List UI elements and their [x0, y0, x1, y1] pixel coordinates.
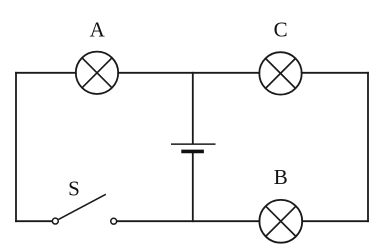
svg-text:B: B [274, 165, 288, 189]
switch S: left terminal [52, 218, 58, 224]
wire top-left horizontal [16, 72, 76, 74]
battery: short thick plate (-) [181, 150, 204, 154]
lamp A [76, 52, 118, 94]
svg-text:A: A [90, 18, 106, 42]
svg-text:S: S [68, 177, 80, 201]
wire bottom-left horizontal [16, 220, 52, 222]
battery: long thin plate (+) [171, 143, 216, 145]
wire middle branch upper (top node to battery) [192, 73, 194, 144]
wire bottom-right horizontal [302, 220, 368, 222]
wire left vertical [15, 73, 17, 221]
wire middle branch lower (battery to bottom node) [192, 154, 194, 222]
lamp C [259, 52, 301, 94]
switch S: blade [59, 194, 106, 219]
wire bottom-middle horizontal (lamp B to switch) [117, 220, 259, 222]
wire top-middle horizontal [118, 72, 259, 74]
switch S: right terminal [111, 218, 117, 224]
lamp B [259, 200, 302, 243]
wire right vertical [367, 73, 369, 221]
wire top-right horizontal [302, 72, 368, 74]
svg-text:C: C [274, 17, 288, 41]
